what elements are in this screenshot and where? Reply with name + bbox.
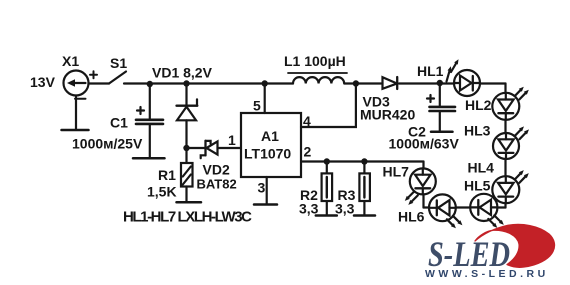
LED HL2 [492, 87, 529, 120]
LED HL4 [492, 170, 529, 203]
logo red swoosh [475, 224, 555, 267]
ground bar X1 [62, 129, 89, 132]
resistor R1 [181, 148, 193, 202]
svg-text:R1: R1 [158, 167, 176, 183]
schottky diode VD2 [187, 141, 242, 158]
svg-text:VD2: VD2 [203, 162, 230, 178]
svg-text:L1 100µH: L1 100µH [284, 53, 346, 69]
svg-text:HL4: HL4 [468, 160, 495, 176]
pin 3 wire [266, 177, 268, 204]
resistor R3 [359, 162, 370, 215]
pin 4 wire [301, 84, 356, 128]
ground bar C2 [431, 130, 453, 133]
svg-text:HL5: HL5 [464, 178, 491, 194]
svg-text:HL7: HL7 [383, 164, 410, 180]
resistor R2 [322, 162, 333, 215]
svg-text:A1: A1 [261, 128, 279, 144]
LED HL3 [493, 126, 529, 159]
svg-text:1000м/63V: 1000м/63V [389, 136, 460, 152]
wire: HL7 branch vertical [422, 162, 424, 208]
capacitor C1 [136, 84, 163, 157]
svg-text:1000м/25V: 1000м/25V [72, 136, 143, 152]
LED HL5 [470, 194, 504, 228]
svg-text:MUR420: MUR420 [360, 107, 415, 123]
capacitor C2 [427, 83, 455, 131]
ground bar R1 [177, 201, 202, 204]
LED HL7 [405, 168, 436, 205]
wire: right LED column rail [504, 84, 506, 208]
node: VD1/R1/VD2 junction [183, 145, 189, 151]
op-amp / IC A1 LT1070 [241, 113, 301, 177]
ground bar pin 3 [254, 203, 277, 206]
svg-text:5: 5 [253, 98, 261, 114]
connector X1 [64, 71, 98, 130]
node: pin 5 junction [262, 80, 268, 86]
node: VD1 junction on top rail [183, 80, 189, 86]
svg-text:C1: C1 [110, 115, 128, 131]
wire: X1 to switch S1 [88, 82, 109, 84]
pin 5 wire [264, 84, 266, 114]
svg-text:HL2: HL2 [465, 97, 492, 113]
node: pin2/R2 junction [324, 158, 330, 164]
svg-text:13V: 13V [30, 74, 56, 90]
svg-text:LT1070: LT1070 [244, 146, 291, 162]
svg-text:HL1: HL1 [417, 63, 444, 79]
node: pin2/R3 junction [361, 158, 367, 164]
svg-text:WWW.S-LED.RU: WWW.S-LED.RU [425, 268, 549, 280]
svg-text:HL6: HL6 [398, 209, 425, 225]
wire: main top rail [124, 82, 506, 84]
switch S1 [109, 72, 126, 84]
node: pin 4 junction on top rail [353, 80, 359, 86]
ground bar C1 [133, 157, 165, 160]
wire: bottom LED rail [424, 206, 506, 208]
svg-text:1,5K: 1,5K [147, 184, 177, 200]
LED HL1 [447, 59, 481, 96]
zener diode VD1 [177, 84, 198, 149]
svg-text:BAT82: BAT82 [197, 177, 237, 192]
svg-text:3,3: 3,3 [299, 201, 319, 217]
svg-text:X1: X1 [62, 53, 79, 69]
ground bar R2 [316, 214, 337, 217]
svg-text:3,3: 3,3 [335, 201, 355, 217]
svg-text:1: 1 [228, 132, 236, 148]
svg-text:3: 3 [258, 180, 266, 196]
svg-text:2: 2 [304, 144, 312, 160]
svg-text:S1: S1 [110, 55, 127, 71]
svg-text:VD1 8,2V: VD1 8,2V [152, 65, 213, 81]
inductor L1 [288, 73, 347, 84]
svg-text:HL1-HL7 LXLH-LW3C: HL1-HL7 LXLH-LW3C [123, 209, 252, 226]
node: S1/C1 junction [147, 81, 153, 87]
ground bar R3 [354, 214, 375, 217]
LED HL6 [429, 194, 462, 228]
wire: pin 2 feedback rail [301, 160, 424, 162]
node: C2/HL1 junction [437, 80, 443, 86]
diode VD3 [383, 77, 398, 89]
svg-text:4: 4 [303, 113, 311, 129]
svg-text:HL3: HL3 [464, 123, 491, 139]
